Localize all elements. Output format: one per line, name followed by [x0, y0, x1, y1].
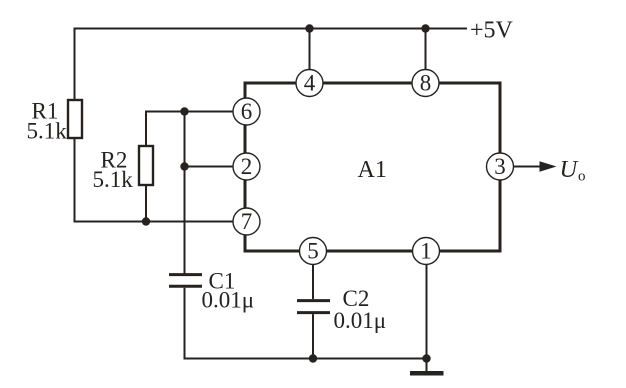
pin 5 circle — [300, 238, 327, 265]
wire top rail from R1 top to +5V — [75, 29, 468, 101]
pin 1 circle — [413, 238, 440, 265]
pin 4 circle — [296, 70, 323, 97]
wire R2 top to pin6 line — [146, 112, 234, 147]
wire C2 bottom to ground rail — [312, 314, 314, 358]
svg-text:5.1k: 5.1k — [93, 167, 134, 192]
svg-text:8: 8 — [420, 71, 432, 96]
svg-text:A1: A1 — [358, 157, 387, 183]
resistor R1 — [68, 100, 82, 138]
pin 7 circle — [233, 208, 260, 235]
output wire with arrow from pin 3 — [514, 161, 557, 171]
pin 8 circle — [412, 70, 439, 97]
svg-text:6: 6 — [241, 99, 253, 124]
capacitor C1 — [169, 275, 202, 287]
wire pin2 stub — [185, 166, 234, 168]
svg-text:3: 3 — [494, 154, 506, 179]
svg-text:0.01μ: 0.01μ — [334, 308, 387, 333]
resistor R2 — [139, 146, 153, 185]
svg-text:5: 5 — [307, 239, 319, 264]
pin 2 circle — [233, 153, 260, 180]
svg-text:2: 2 — [241, 154, 253, 179]
svg-text:+5V: +5V — [470, 18, 514, 44]
svg-text:1: 1 — [420, 239, 432, 264]
wire vertical pin6 line down to C1 — [184, 112, 186, 275]
svg-text:4: 4 — [304, 71, 316, 96]
wire pin5 to C2 — [312, 265, 314, 300]
junction dot on pin2 line — [180, 162, 188, 170]
junction dot on pin6 line — [180, 107, 188, 115]
junction dot C2 at rail — [309, 354, 317, 362]
svg-text:0.01μ: 0.01μ — [202, 288, 255, 313]
pin 6 circle — [233, 98, 260, 125]
wire pin4 supply stub — [309, 29, 311, 71]
junction dot at pin4 rail — [305, 24, 313, 32]
junction dot at pin8 rail — [421, 24, 429, 32]
ground — [410, 359, 444, 374]
junction dot pin1 at rail — [422, 354, 430, 362]
svg-text:o: o — [578, 169, 586, 185]
svg-text:U: U — [560, 156, 580, 183]
wire C1 bottom to ground rail — [185, 288, 427, 359]
pin 3 circle — [487, 153, 514, 180]
junction dot R2 bottom — [142, 217, 150, 225]
IC A1 box — [245, 83, 500, 251]
wire pin8 supply stub — [425, 29, 427, 71]
svg-text:7: 7 — [241, 209, 253, 234]
wire pin1 down to ground rail — [426, 265, 428, 359]
capacitor C2 — [297, 301, 330, 313]
wire R2 bottom — [145, 185, 147, 222]
wire R1 bottom to pin7 line — [75, 138, 234, 222]
svg-text:5.1k: 5.1k — [27, 119, 68, 144]
